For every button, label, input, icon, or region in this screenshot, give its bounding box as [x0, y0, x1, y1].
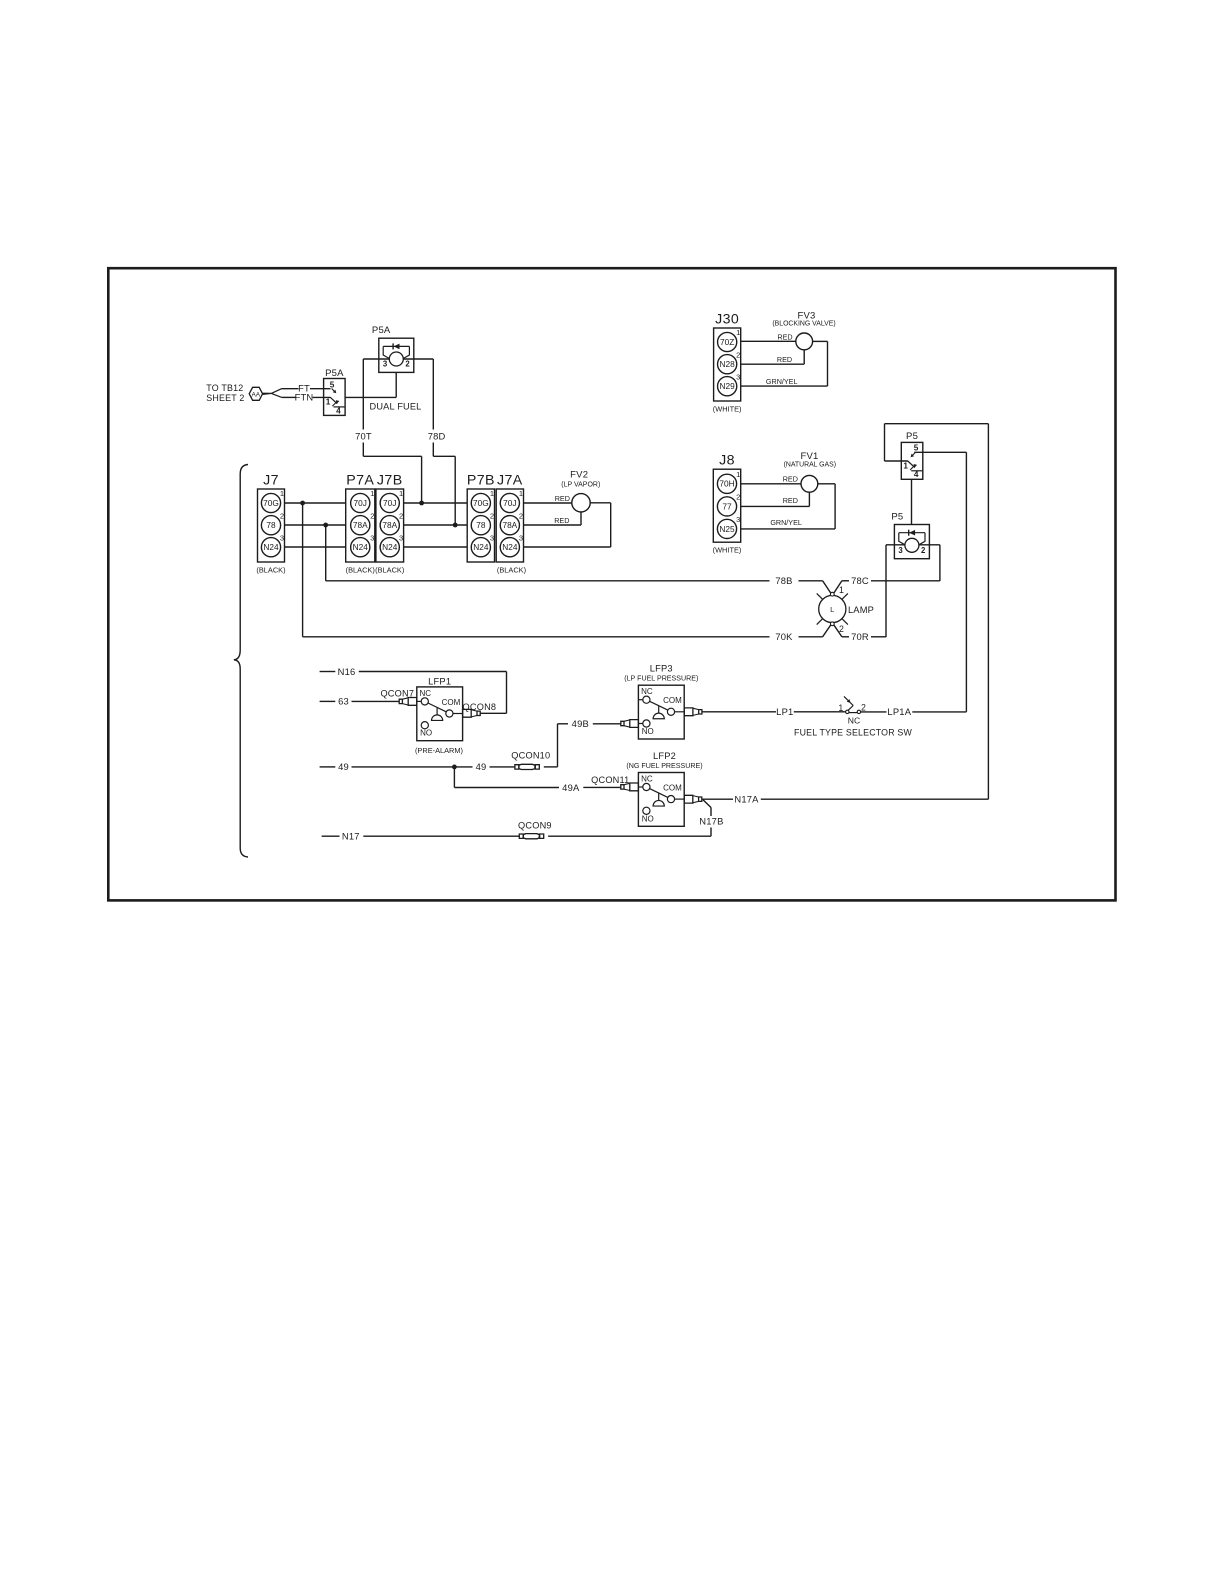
wire right rail down to N17A	[987, 424, 989, 800]
valve FV1 coil circle	[801, 475, 818, 492]
svg-text:70T: 70T	[355, 430, 372, 441]
svg-text:70G: 70G	[473, 498, 489, 508]
wire FV3 GRN/YEL return	[813, 340, 828, 342]
svg-text:(BLACK): (BLACK)	[256, 566, 285, 575]
svg-text:N25: N25	[719, 524, 735, 534]
svg-text:(LP VAPOR): (LP VAPOR)	[561, 482, 600, 489]
junction 70T at J7B pin1 wire	[419, 501, 424, 506]
svg-text:NO: NO	[642, 814, 654, 823]
svg-text:GRN/YEL: GRN/YEL	[766, 377, 798, 386]
svg-text:FUEL TYPE SELECTOR SW: FUEL TYPE SELECTOR SW	[794, 728, 912, 738]
svg-text:N24: N24	[382, 542, 398, 552]
valve FV2 coil circle	[572, 494, 590, 512]
svg-text:70K: 70K	[775, 631, 793, 642]
svg-text:5: 5	[330, 380, 335, 389]
wire FV1 GRN/YEL return	[818, 483, 835, 485]
connector J7B pin 2 circle 78A	[380, 516, 399, 535]
connector J7A pin 2 circle 78A	[500, 516, 519, 535]
wire J7-P7A pin2	[285, 524, 346, 526]
lamp terminal 1	[830, 592, 834, 596]
wire LP1	[702, 711, 776, 713]
svg-text:SHEET 2: SHEET 2	[206, 393, 244, 403]
connector P7A pin 1 circle 70J	[351, 493, 370, 512]
svg-text:(BLOCKING VALVE): (BLOCKING VALVE)	[772, 321, 835, 328]
svg-text:(WHITE): (WHITE)	[713, 405, 742, 414]
svg-text:N24: N24	[502, 542, 518, 552]
svg-text:N17A: N17A	[734, 793, 759, 804]
svg-text:COM: COM	[442, 698, 461, 707]
terminal QCON8	[463, 709, 472, 717]
svg-text:LP1A: LP1A	[887, 706, 911, 717]
switch LFP3 body	[638, 685, 684, 739]
svg-text:78A: 78A	[502, 520, 517, 530]
connector J8 pin 1 circle 70H	[717, 474, 736, 493]
svg-text:1: 1	[370, 489, 374, 498]
svg-text:1: 1	[736, 470, 740, 479]
switch LFP1 blade	[428, 703, 446, 712]
svg-text:70J: 70J	[503, 498, 516, 508]
svg-text:1: 1	[490, 489, 494, 498]
connector J30 pin 2 circle N28	[718, 355, 737, 374]
switch LFP3 plunger	[658, 706, 660, 713]
svg-text:N28: N28	[720, 359, 736, 369]
svg-text:NC: NC	[641, 775, 653, 784]
switch LFP1 body	[417, 687, 463, 741]
svg-text:RED: RED	[777, 332, 792, 341]
svg-text:QCON8: QCON8	[463, 702, 497, 712]
svg-text:RED: RED	[555, 494, 570, 503]
plug P5 diode diode	[909, 530, 915, 536]
lamp L body	[819, 595, 846, 622]
plug P5 diode body	[894, 525, 929, 559]
connector J7A pin 1 circle 70J	[500, 493, 519, 512]
switch LFP2 blade	[650, 789, 668, 798]
wire 70R diagonal from lamp	[832, 623, 842, 637]
plug P5 sw body	[901, 442, 923, 479]
wire LP1A	[861, 711, 887, 713]
plug P5 diode lamp circle	[905, 538, 919, 552]
svg-text:J8: J8	[719, 453, 735, 469]
wire P5 diode pin2 to 78C drop	[919, 544, 940, 546]
svg-text:P7B: P7B	[467, 473, 495, 489]
svg-text:LFP3: LFP3	[650, 664, 673, 674]
wire P5 pin4 to P5 diode plug	[911, 479, 913, 524]
switch LFP3 NC contact	[638, 699, 642, 701]
svg-text:P7A: P7A	[346, 473, 374, 489]
connector P7B pin 1 circle 70G	[471, 493, 490, 512]
svg-text:J30: J30	[715, 312, 739, 328]
svg-text:NC: NC	[848, 716, 860, 726]
connector P7B pin 2 circle 78	[471, 516, 490, 535]
svg-text:P5: P5	[891, 511, 903, 522]
svg-text:78A: 78A	[353, 520, 368, 530]
svg-text:QCON11: QCON11	[591, 775, 629, 785]
svg-text:(WHITE): (WHITE)	[713, 546, 742, 555]
svg-text:LFP2: LFP2	[653, 751, 676, 761]
junction node 78B tap	[323, 523, 328, 528]
wire N16 drop to QCON8	[506, 672, 508, 714]
svg-text:J7B: J7B	[377, 473, 403, 489]
plug P5A diode lamp circle	[389, 352, 403, 366]
switch LFP2 NC contact	[638, 786, 642, 788]
svg-text:77: 77	[722, 501, 732, 511]
switch LFP3 NO contact	[643, 720, 650, 727]
svg-text:1: 1	[280, 489, 284, 498]
svg-text:1: 1	[519, 489, 523, 498]
wire J7B-P7B pin3	[404, 546, 468, 548]
svg-text:J7: J7	[263, 473, 279, 489]
svg-text:3: 3	[736, 372, 740, 381]
wire fanout to FTN	[271, 393, 282, 397]
connector J8 pin 3 circle N25	[717, 519, 736, 538]
connector P7B body	[467, 489, 494, 562]
connector J8 body	[713, 469, 740, 542]
switch FUEL TYPE SELECTOR	[846, 710, 849, 713]
svg-text:3: 3	[280, 533, 284, 542]
connector J30 pin 3 circle N29	[718, 377, 737, 396]
wire J7A pin1 to FV2	[524, 502, 572, 504]
wire FTN	[282, 396, 296, 398]
svg-text:3: 3	[490, 533, 494, 542]
connector J7A body	[496, 489, 523, 562]
switch LFP2 body	[638, 773, 684, 827]
wire 70K from J7 pin1 tap	[302, 503, 304, 637]
wire N17A	[702, 798, 733, 800]
svg-text:2: 2	[280, 511, 284, 520]
svg-text:78: 78	[266, 520, 276, 530]
border frame	[108, 268, 1115, 900]
plug P5A diode diode loop	[383, 346, 389, 358]
svg-text:NC: NC	[420, 689, 432, 698]
svg-text:RED: RED	[777, 355, 792, 364]
svg-text:N24: N24	[473, 542, 489, 552]
wire J7B-P7B pin2	[404, 524, 468, 526]
wire J30 pin1 RED to FV3	[741, 340, 796, 342]
wire stub N16	[320, 671, 336, 673]
svg-text:1: 1	[736, 328, 740, 337]
wire P5A pin1 to diode plug P5A pin4	[345, 396, 396, 398]
wire J7B-P7B pin1	[404, 502, 468, 504]
connector P7A pin 3 circle N24	[351, 538, 370, 557]
connector J7 pin 3 circle N24	[261, 538, 280, 557]
splice AA hexagon	[249, 387, 262, 400]
switch LFP1 plunger	[436, 708, 438, 715]
svg-text:5: 5	[914, 444, 919, 453]
switch LFP3 COM contact	[667, 708, 674, 715]
svg-text:78D: 78D	[428, 430, 446, 441]
svg-text:70J: 70J	[354, 498, 367, 508]
junction node 70K tap	[300, 501, 305, 506]
wire 70T vertical	[362, 359, 364, 430]
plug P5A sw body	[324, 379, 346, 416]
svg-text:2: 2	[861, 703, 866, 713]
svg-text:P5A: P5A	[372, 325, 391, 336]
switch LFP1 NO contact	[421, 722, 428, 729]
connector J7 body	[258, 489, 285, 562]
lamp rays	[817, 593, 823, 599]
wire J7-P7A pin3	[285, 546, 346, 548]
svg-text:(BLACK): (BLACK)	[375, 566, 404, 575]
wire fanout to FT	[271, 389, 281, 394]
connector J7 pin 2 circle 78	[261, 516, 280, 535]
connector J7 pin 1 circle 70G	[261, 493, 280, 512]
terminal QCON7	[399, 699, 402, 703]
left harness brace	[234, 465, 248, 858]
svg-text:N16: N16	[338, 666, 356, 677]
svg-text:2: 2	[921, 546, 926, 555]
svg-text:LFP1: LFP1	[428, 677, 451, 687]
connector P7A pin 2 circle 78A	[351, 516, 370, 535]
svg-text:1: 1	[326, 398, 331, 407]
svg-text:NO: NO	[420, 729, 432, 738]
svg-text:N17: N17	[342, 831, 360, 842]
svg-text:78B: 78B	[775, 575, 792, 586]
connector J8 pin 2 circle 77	[717, 497, 736, 516]
wire N17B riser	[710, 828, 712, 837]
svg-text:NC: NC	[641, 687, 653, 696]
switch LFP2 NO contact	[643, 807, 650, 814]
svg-text:1: 1	[903, 462, 908, 471]
svg-text:49A: 49A	[562, 782, 580, 793]
connector J30 body	[714, 328, 741, 401]
wire FV2 pin2 return	[580, 512, 582, 525]
wire diode P5A pin2 to 78D	[403, 358, 433, 360]
svg-text:3: 3	[370, 533, 374, 542]
wire 49A branch	[453, 767, 455, 788]
svg-text:4: 4	[336, 406, 341, 415]
wire 70K diagonal into lamp	[823, 623, 833, 637]
plug P5A sw pin 4 step	[334, 406, 346, 408]
svg-text:N24: N24	[263, 542, 279, 552]
connector J7B pin 3 circle N24	[380, 538, 399, 557]
terminal QCON10	[515, 765, 519, 769]
svg-text:FV1: FV1	[800, 451, 818, 462]
connector P7B pin 3 circle N24	[471, 538, 490, 557]
wire 78B from J7 pin2 tap	[325, 525, 327, 581]
svg-text:GRN/YEL: GRN/YEL	[770, 518, 802, 527]
wire FV1 pin2 RED return	[808, 492, 810, 506]
wire FT	[282, 388, 299, 390]
wire 78B diagonal into lamp	[823, 581, 833, 596]
svg-text:LP1: LP1	[776, 706, 793, 717]
svg-text:N24: N24	[353, 542, 369, 552]
switch LFP3 blade	[650, 701, 668, 710]
terminal QCON on LFP3 NO input	[621, 721, 624, 725]
svg-text:78A: 78A	[382, 520, 397, 530]
svg-text:2: 2	[399, 511, 403, 520]
svg-text:3: 3	[399, 533, 403, 542]
terminal QCON11 on LFP2 NC input	[621, 785, 624, 789]
svg-text:3: 3	[383, 360, 388, 369]
svg-text:(NG FUEL PRESSURE): (NG FUEL PRESSURE)	[626, 762, 702, 770]
svg-text:COM: COM	[663, 696, 682, 705]
svg-text:70R: 70R	[851, 631, 869, 642]
switch LFP2 COM contact	[667, 796, 674, 803]
svg-text:FV2: FV2	[570, 469, 588, 480]
svg-text:70H: 70H	[719, 479, 734, 489]
plug P5 diode diode loop	[899, 533, 905, 545]
svg-text:49B: 49B	[572, 718, 589, 729]
svg-text:RED: RED	[783, 475, 798, 484]
svg-text:70G: 70G	[263, 498, 279, 508]
terminal QCON9	[519, 834, 523, 838]
svg-text:49: 49	[476, 761, 487, 772]
svg-text:1: 1	[839, 585, 844, 595]
wire P5 diode pin3 to 70R drop	[886, 544, 905, 546]
svg-text:2: 2	[490, 511, 494, 520]
connector J7A pin 3 circle N24	[500, 538, 519, 557]
svg-text:AA: AA	[252, 391, 261, 398]
switch LFP1 NC contact	[417, 700, 421, 702]
splice AA tail	[263, 393, 272, 394]
svg-text:RED: RED	[554, 516, 569, 525]
svg-text:2: 2	[519, 511, 523, 520]
svg-text:78: 78	[476, 520, 486, 530]
svg-text:COM: COM	[663, 784, 682, 793]
svg-text:2: 2	[370, 511, 374, 520]
svg-text:3: 3	[519, 533, 523, 542]
svg-text:2: 2	[736, 493, 740, 502]
svg-text:70J: 70J	[383, 498, 396, 508]
svg-text:QCON10: QCON10	[511, 751, 550, 761]
wire stub N17	[322, 835, 340, 837]
wire 78C diagonal from lamp	[832, 581, 842, 596]
valve FV3 coil circle	[796, 333, 813, 350]
junction 49 split	[452, 765, 457, 770]
svg-text:(LP FUEL PRESSURE): (LP FUEL PRESSURE)	[624, 675, 698, 683]
svg-text:N29: N29	[720, 381, 736, 391]
wire stub 49	[320, 766, 336, 768]
svg-text:L: L	[830, 605, 834, 614]
svg-text:LAMP: LAMP	[848, 605, 874, 615]
selector closed contact	[849, 712, 857, 714]
svg-text:2: 2	[736, 350, 740, 359]
switch LFP1 COM contact	[446, 710, 453, 717]
wire FV2 ground return	[590, 502, 611, 504]
svg-text:(NATURAL GAS): (NATURAL GAS)	[784, 461, 836, 468]
svg-text:(PRE-ALARM): (PRE-ALARM)	[415, 746, 463, 755]
svg-text:FTN: FTN	[295, 392, 314, 403]
wire FV3 pin2 RED return	[803, 350, 805, 364]
plug P5A diode body	[379, 338, 414, 372]
plug P5 sw pin 4 step	[911, 470, 923, 472]
terminal on LFP2 COM output	[684, 795, 693, 803]
svg-text:78C: 78C	[851, 575, 869, 586]
wire diode P5A pin3 to 70T	[363, 358, 389, 360]
svg-text:(BLACK): (BLACK)	[346, 566, 375, 575]
connector P7A body	[346, 489, 375, 562]
svg-text:QCON9: QCON9	[518, 820, 552, 830]
svg-text:70Z: 70Z	[720, 337, 734, 347]
svg-text:NO: NO	[642, 727, 654, 736]
svg-text:RED: RED	[783, 496, 798, 505]
svg-text:DUAL FUEL: DUAL FUEL	[369, 402, 421, 412]
wire 49B riser	[557, 724, 559, 767]
wire P5 pin1 to top rail	[885, 460, 908, 462]
svg-text:J7A: J7A	[497, 473, 523, 489]
svg-text:P5A: P5A	[325, 368, 344, 379]
svg-text:4: 4	[914, 470, 919, 479]
svg-text:2: 2	[839, 624, 844, 634]
connector J30 pin 1 circle 70Z	[718, 332, 737, 351]
svg-text:63: 63	[338, 696, 349, 707]
svg-text:(BLACK): (BLACK)	[497, 566, 526, 575]
svg-text:3: 3	[898, 546, 903, 555]
svg-text:2: 2	[405, 360, 410, 369]
lamp terminal 2	[830, 622, 834, 626]
wire stub 63	[320, 700, 336, 702]
wire J7-P7A pin1	[285, 502, 346, 504]
junction 78D at P7B pin2 wire	[453, 523, 458, 528]
selector blade	[848, 706, 853, 711]
plug P5A diode diode	[394, 344, 400, 350]
svg-text:TO TB12: TO TB12	[206, 383, 243, 393]
svg-text:1: 1	[838, 703, 843, 713]
wire 78D vertical	[432, 359, 434, 430]
wire P5 pin5 to LP1A rail	[914, 451, 966, 453]
connector J7B pin 1 circle 70J	[380, 493, 399, 512]
svg-text:QCON7: QCON7	[380, 689, 414, 699]
wire J8 pin1 RED to FV1	[741, 483, 801, 485]
svg-text:1: 1	[399, 489, 403, 498]
switch LFP2 plunger	[658, 793, 660, 800]
svg-text:49: 49	[338, 761, 349, 772]
svg-text:3: 3	[736, 515, 740, 524]
terminal on LFP3 COM output	[684, 708, 693, 716]
svg-text:N17B: N17B	[699, 815, 723, 826]
connector J7B body	[376, 489, 404, 562]
svg-text:P5: P5	[906, 431, 918, 442]
